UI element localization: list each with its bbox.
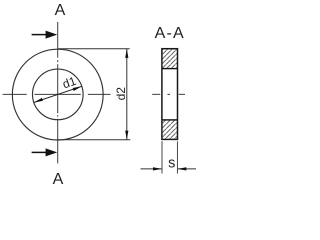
svg-text:s: s — [168, 155, 175, 171]
svg-text:A-A: A-A — [155, 25, 185, 42]
svg-text:A: A — [55, 2, 66, 19]
svg-text:d2: d2 — [114, 87, 128, 101]
svg-text:A: A — [53, 171, 64, 188]
